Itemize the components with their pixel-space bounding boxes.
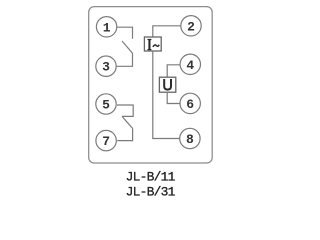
terminal 8	[180, 128, 200, 148]
svg-text:2: 2	[187, 19, 195, 34]
wire terminal1 to contact stub	[117, 27, 132, 39]
svg-text:8: 8	[186, 132, 194, 147]
terminal 2	[181, 16, 201, 36]
svg-text:4: 4	[186, 58, 194, 73]
svg-text:5: 5	[102, 98, 110, 113]
wire terminal7 to contact blade	[117, 128, 132, 140]
voltage coil U2 box U	[159, 77, 175, 92]
svg-text:7: 7	[102, 134, 110, 149]
relay case outline	[89, 7, 213, 163]
svg-text:1: 1	[103, 20, 111, 35]
wire terminal2 to current coil	[153, 26, 181, 37]
svg-text:3: 3	[102, 60, 110, 75]
svg-text:6: 6	[186, 97, 194, 112]
terminal 1	[96, 17, 116, 37]
terminal 5	[96, 94, 116, 114]
wire voltage coil to terminal6	[167, 92, 180, 103]
svg-text:JL-B/31: JL-B/31	[126, 184, 176, 199]
terminal 6	[180, 93, 200, 113]
terminal 3	[96, 56, 116, 76]
current coil U1 box I~	[144, 37, 161, 51]
svg-text:JL-B/11: JL-B/11	[126, 169, 176, 184]
wire terminal4 to voltage coil	[167, 65, 180, 77]
wire current coil to terminal8	[153, 51, 180, 139]
contact K1 blade (NO contact 1-3)	[122, 41, 133, 54]
contact K2 blade (NC contact 5-7)	[122, 116, 133, 128]
terminal 4	[180, 54, 200, 74]
wire terminal3 to contact blade	[117, 54, 133, 67]
wire terminal5 to contact bar	[117, 105, 133, 116]
terminal 7	[96, 130, 116, 150]
